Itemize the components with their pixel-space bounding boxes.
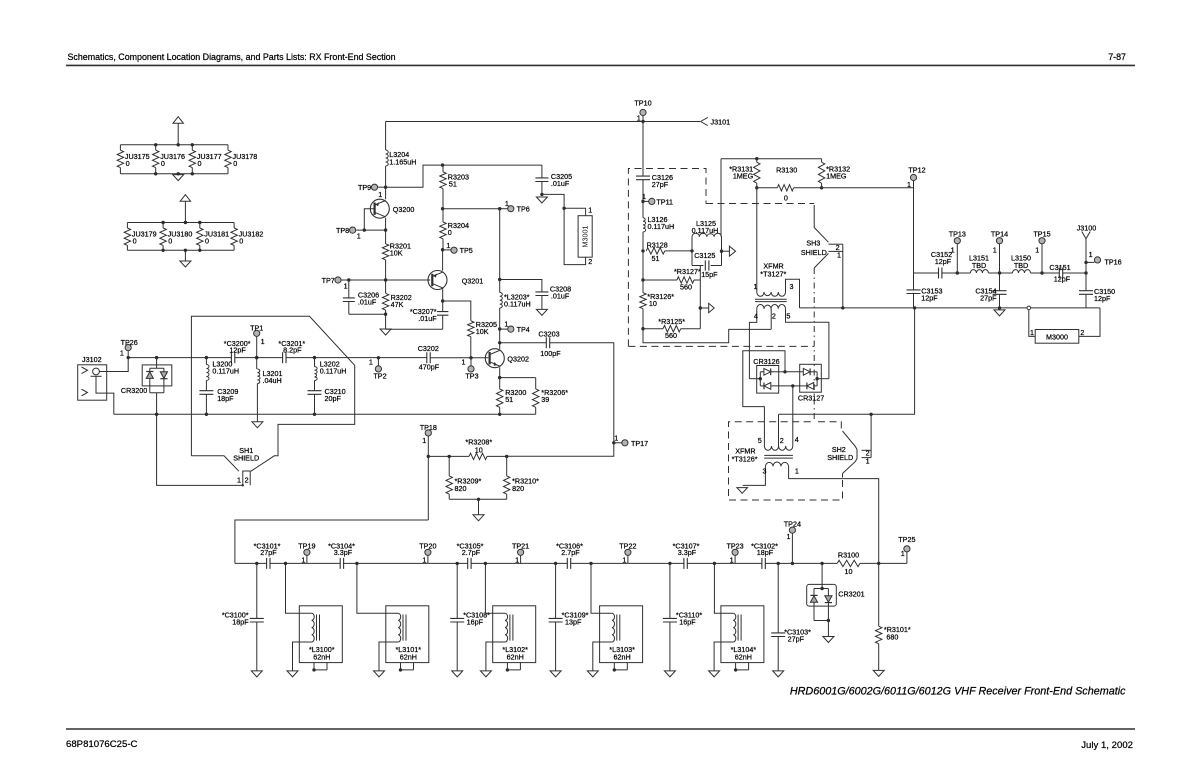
resistor R3209	[448, 456, 450, 476]
ground below R3101	[873, 670, 884, 676]
wire L3103 feed	[591, 563, 612, 613]
node C3208 branch	[498, 278, 501, 281]
wire chain segment2	[270, 562, 340, 564]
svg-text:0: 0	[161, 159, 165, 168]
node TP16 junction	[1084, 261, 1087, 264]
test point TP24	[791, 533, 793, 563]
ground below C3208	[536, 309, 547, 315]
node L3202 top	[313, 356, 316, 359]
svg-text:27pF: 27pF	[980, 294, 997, 303]
test point TP3	[469, 356, 472, 359]
svg-text:Q3200: Q3200	[393, 205, 415, 214]
wire R3128 to tank	[665, 250, 692, 252]
svg-text:1: 1	[993, 245, 997, 254]
CR3201 left diode (up)	[813, 589, 815, 596]
inductor L3102 box	[493, 606, 536, 663]
ground below C3109	[550, 671, 561, 677]
svg-text:TP1: TP1	[250, 324, 263, 333]
test point TP8	[350, 227, 356, 233]
wire C3208 branch	[500, 280, 542, 293]
inductor L3204	[386, 150, 389, 166]
inductor L3104 core	[738, 615, 741, 641]
test point TP26	[125, 345, 131, 351]
svg-text:SHIELD: SHIELD	[233, 453, 259, 462]
svg-text:1: 1	[642, 192, 646, 201]
module M3000 connection circle	[1027, 306, 1031, 310]
wire SH1 pin1 to ground rail	[157, 414, 243, 485]
T3127 primary winding	[757, 292, 786, 296]
T3126 pin2 lead	[778, 414, 780, 446]
svg-text:1: 1	[1089, 250, 1093, 259]
connector J3100	[1085, 239, 1087, 273]
shield SH3 boundary line	[814, 205, 828, 268]
svg-text:SHIELD: SHIELD	[827, 453, 853, 462]
wire Q3202 emitter	[499, 367, 501, 377]
node TP11 junction	[641, 200, 644, 203]
wire CR3127 to T3127 pin5 riser	[817, 378, 829, 380]
inductor L3104 box	[721, 606, 764, 663]
wire TP18 stem down	[427, 436, 429, 520]
node C3154 rail junction	[998, 306, 1001, 309]
node TP5 junction	[441, 248, 444, 251]
wire R3125 right vertical to arrow node	[699, 280, 701, 329]
svg-text:0: 0	[133, 237, 137, 246]
capacitor C3203 wire left	[500, 342, 547, 344]
svg-text:1: 1	[787, 532, 791, 541]
svg-text:4: 4	[754, 312, 758, 321]
inductor L3203	[499, 280, 501, 293]
svg-text:8.2pF: 8.2pF	[283, 346, 302, 355]
svg-text:0: 0	[205, 237, 209, 246]
svg-text:62nH: 62nH	[735, 653, 752, 662]
footer rule	[66, 728, 1135, 730]
svg-text:0: 0	[239, 237, 243, 246]
svg-text:27pF: 27pF	[788, 635, 805, 644]
ground below C3110	[664, 671, 675, 677]
arrow symbol 2	[700, 307, 708, 309]
node C3110 top	[668, 562, 671, 565]
CR3126 left common bar	[759, 372, 761, 386]
svg-text:J3102: J3102	[82, 355, 102, 364]
resistor JU3178	[227, 145, 229, 150]
ground below C3205	[536, 197, 547, 203]
wire L3101 ground lead	[379, 642, 398, 671]
shield SH1 pin box	[243, 471, 250, 485]
resistor R3132	[821, 159, 823, 163]
svg-text:51: 51	[652, 254, 660, 263]
node TP6 junction	[498, 207, 501, 210]
wire R3130 to TP12	[822, 187, 914, 189]
svg-text:C3202: C3202	[418, 344, 439, 353]
wire CR3126 left feed	[749, 378, 760, 380]
node R3128 junction	[641, 249, 644, 252]
node TP26 junction	[127, 356, 130, 359]
node R3203 bottom TP6 branch	[441, 207, 444, 210]
wire SH3 pins to rail	[842, 244, 844, 308]
svg-text:1: 1	[344, 282, 348, 291]
test point TP9	[378, 186, 386, 188]
node Q3202 emitter junction	[498, 376, 501, 379]
module M3001 box	[578, 216, 592, 258]
capacitor C3100	[256, 563, 258, 618]
CR3126 bottom diode	[760, 385, 764, 387]
header rule	[66, 64, 1135, 66]
svg-text:1: 1	[795, 466, 799, 475]
ground below C3103	[773, 671, 784, 677]
inductor L3102 core	[510, 615, 513, 641]
inductor L3151	[970, 270, 988, 273]
capacitor C3151	[1059, 268, 1062, 279]
SH3 pin1 stub	[828, 250, 842, 252]
svg-text:TBD: TBD	[1014, 261, 1028, 270]
dashed shield boundary step	[706, 203, 814, 205]
svg-text:51: 51	[449, 180, 457, 189]
svg-text:0: 0	[784, 194, 788, 203]
wire column bottom to T3127 pin2	[643, 329, 771, 343]
resistor R3131	[756, 159, 758, 163]
test point TP5	[443, 249, 451, 251]
svg-text:1: 1	[120, 348, 124, 357]
transistor Q3200	[370, 199, 389, 218]
svg-text:1: 1	[515, 555, 519, 564]
wire L3204 column upper	[385, 122, 387, 151]
svg-text:HRD6001G/6002G/6011G/6012G VHF: HRD6001G/6002G/6011G/6012G VHF Receiver …	[790, 686, 1126, 698]
svg-text:TP15: TP15	[1033, 229, 1050, 238]
resistor R3126	[642, 280, 644, 293]
svg-text:16pF: 16pF	[467, 618, 484, 627]
svg-text:27pF: 27pF	[652, 180, 669, 189]
test point TP11	[643, 200, 649, 202]
jumper bank2 bottom rail wire	[127, 249, 234, 251]
wire T3126 pin2 to output rail riser	[779, 308, 915, 414]
capacitor C3200	[231, 352, 234, 363]
module M3000 box	[1035, 330, 1079, 344]
svg-text:13pF: 13pF	[565, 618, 582, 627]
wire C3201 to C3202	[286, 357, 427, 359]
inductor L3100 core	[317, 615, 320, 641]
svg-text:CR3200: CR3200	[121, 386, 147, 395]
J3102 chevron pin upper	[82, 367, 88, 374]
resistor R3208	[469, 453, 487, 459]
svg-text:1: 1	[866, 456, 870, 465]
inductor L3103 core	[617, 615, 620, 641]
wire TP12 stem	[913, 181, 915, 188]
wire C3205 node to M3001	[542, 194, 564, 208]
ground below L3103	[587, 671, 598, 677]
svg-text:*T3126*: *T3126*	[732, 454, 758, 463]
wire C3203 to TP17 column	[507, 343, 614, 456]
wire chain segment5	[571, 562, 684, 564]
wire Q3200 base lead	[364, 209, 373, 230]
node C3109 top	[554, 562, 557, 565]
svg-text:M3001: M3001	[581, 226, 590, 248]
node R3131 bottom	[755, 186, 758, 189]
wire R3131 R3132 top rail	[721, 158, 822, 160]
svg-text:July 1, 2002: July 1, 2002	[1081, 740, 1133, 751]
inductor L3100 box	[299, 606, 342, 663]
svg-text:18pF: 18pF	[217, 394, 234, 403]
test point TP12	[910, 174, 916, 180]
svg-text:1: 1	[637, 113, 641, 122]
capacitor C3154 shunt	[999, 273, 1001, 291]
bank1 junction dots	[154, 143, 157, 146]
node L3101 feed	[355, 562, 358, 565]
node arrow2	[699, 306, 702, 309]
diode pack CR3127 box	[800, 364, 822, 392]
resistor JU3175	[119, 145, 121, 150]
ground below L3201	[252, 422, 263, 428]
svg-text:R3128: R3128	[647, 240, 668, 249]
CR3201 top bar	[814, 584, 828, 588]
svg-text:4: 4	[795, 435, 799, 444]
connector J3101	[701, 117, 708, 125]
node R3203 top	[441, 163, 444, 166]
resistor JU3181	[199, 223, 201, 229]
svg-text:62nH: 62nH	[614, 653, 631, 662]
wire chain segment8	[860, 562, 907, 564]
capacitor C3105	[468, 558, 471, 569]
svg-text:1: 1	[504, 320, 508, 329]
svg-text:7-87: 7-87	[1108, 52, 1126, 62]
dashed box top right segment	[818, 422, 841, 431]
capacitor C3210	[314, 381, 316, 391]
svg-text:27pF: 27pF	[260, 548, 277, 557]
T3126 pin1 lead	[789, 466, 879, 563]
node R3125 junction	[641, 327, 644, 330]
svg-text:TP12: TP12	[908, 165, 925, 174]
wire R3204 to Q3201 collector	[442, 250, 444, 271]
svg-text:TP7: TP7	[322, 276, 335, 285]
wire Q3200 emitter to TP8 rail	[385, 218, 387, 230]
svg-text:1: 1	[907, 180, 911, 189]
bank2 junction dots	[161, 221, 164, 224]
CR3200 left diode (up)	[149, 368, 151, 371]
svg-text:TP11: TP11	[656, 197, 673, 206]
node R3202 top junction	[384, 278, 387, 281]
wire L3100 ground lead	[293, 642, 312, 671]
node L3104 feed	[713, 562, 716, 565]
arrow symbol at tank output	[722, 250, 730, 252]
node TP1 junction	[255, 356, 258, 359]
test point TP16	[1086, 261, 1094, 263]
svg-text:R3100: R3100	[838, 550, 859, 559]
resistor JU3177	[191, 145, 193, 150]
svg-text:TBD: TBD	[972, 261, 986, 270]
CR3126 top diode	[760, 371, 764, 373]
svg-text:.01uF: .01uF	[551, 292, 570, 301]
ground below L3104	[709, 671, 720, 677]
inductor L3150	[1013, 270, 1031, 273]
node riser junction	[913, 306, 916, 309]
wire chain segment7	[765, 562, 837, 564]
dashed shield boundary box1	[628, 169, 706, 347]
svg-text:TP4: TP4	[517, 325, 530, 334]
capacitor C3205	[541, 165, 543, 178]
svg-text:0.117uH: 0.117uH	[320, 367, 347, 376]
connector J3102 box	[78, 365, 107, 400]
svg-text:12pF: 12pF	[921, 293, 938, 302]
svg-text:3.3pF: 3.3pF	[334, 548, 353, 557]
test point TP7	[335, 277, 341, 283]
node TP8 wire emitter junction	[384, 228, 387, 231]
svg-text:C3151: C3151	[1049, 263, 1070, 272]
wire C3200 to C3201	[235, 357, 283, 359]
svg-text:1: 1	[754, 282, 758, 291]
diode pair CR3201 box	[807, 584, 837, 606]
node C3205 ground junction	[540, 193, 543, 196]
L3102 shield staple	[507, 663, 520, 670]
svg-text:SHIELD: SHIELD	[801, 248, 827, 257]
svg-text:TP9: TP9	[358, 183, 371, 192]
wire L3151 to L3150	[988, 272, 1012, 274]
svg-text:2: 2	[245, 475, 249, 484]
wire CR3126 top to T3126 pin5 loop	[743, 351, 785, 446]
svg-text:1: 1	[1030, 328, 1034, 337]
svg-text:2: 2	[780, 436, 784, 445]
inductor L3104 coil	[733, 613, 736, 642]
wire R3208 to R3210 node	[487, 455, 507, 457]
svg-text:1: 1	[1035, 245, 1039, 254]
test point TP20	[427, 555, 429, 563]
node TP9	[384, 186, 387, 189]
resistor R3204	[442, 209, 444, 222]
svg-text:M3000: M3000	[1046, 332, 1068, 341]
node mid bottom	[791, 384, 794, 387]
wire L3100 feed	[286, 563, 312, 613]
inductor L3101 core	[403, 615, 406, 641]
svg-text:62nH: 62nH	[400, 653, 417, 662]
wire CR3201 stem	[821, 563, 823, 584]
node R3209 top	[448, 455, 451, 458]
svg-text:*R3125*: *R3125*	[658, 317, 685, 326]
capacitor C3153 shunt	[913, 273, 915, 290]
T3127 pin5 lead	[786, 309, 829, 379]
transistor Q3202	[485, 349, 504, 368]
wire CR3200 stem	[156, 358, 158, 365]
svg-text:Q3202: Q3202	[507, 355, 529, 364]
ground below R3209/R3210	[478, 499, 480, 515]
test point TP6	[500, 208, 508, 210]
svg-text:TP20: TP20	[419, 541, 436, 550]
jumper bank1 bottom rail wire	[120, 173, 228, 175]
resistor R3100	[837, 560, 860, 566]
wire L3203 to Q3202 collector node	[499, 329, 501, 349]
svg-text:1.165uH: 1.165uH	[389, 157, 416, 166]
shield SH2 brace	[843, 431, 858, 474]
wire chain segment3	[344, 562, 468, 564]
CR3201 right diode (down)	[827, 589, 829, 596]
node SH3 rail junction	[841, 306, 844, 309]
svg-text:51: 51	[505, 395, 513, 404]
svg-text:1: 1	[357, 232, 361, 241]
node Q3201 emitter junction	[441, 299, 444, 302]
svg-text:*T3127*: *T3127*	[760, 269, 786, 278]
SH3 pin2 stub	[828, 243, 842, 245]
T3126 bottom winding	[765, 462, 788, 466]
wire bottom chain segment1	[235, 562, 267, 564]
test point TP22	[627, 555, 629, 563]
svg-text:TP16: TP16	[1105, 257, 1122, 266]
svg-text:TP14: TP14	[991, 229, 1008, 238]
svg-text:1MEG: 1MEG	[826, 171, 847, 180]
svg-text:1: 1	[614, 433, 618, 442]
node TP14 junction	[998, 271, 1001, 274]
node C3103 top	[777, 562, 780, 565]
svg-text:0.117uH: 0.117uH	[504, 300, 531, 309]
J3102 chevron pin lower	[82, 389, 88, 396]
wire main path J3102 to C3200	[128, 357, 231, 359]
resistor JU3176	[155, 145, 157, 150]
svg-text:.01uF: .01uF	[418, 314, 437, 323]
svg-text:5: 5	[786, 312, 790, 321]
L3104 shield staple	[736, 663, 749, 670]
wire L3104 feed	[714, 563, 733, 613]
node R3130 right	[820, 186, 823, 189]
wire L3102 ground lead	[486, 642, 505, 671]
node C3206 branch	[347, 278, 350, 281]
ground rail junction dots	[155, 413, 158, 416]
wire M3001 pin2 loop	[564, 208, 586, 264]
L3103 shield staple	[614, 663, 627, 670]
SH2 pin2 stub	[862, 449, 872, 451]
node CR3127 right	[815, 377, 818, 380]
node top rail at TP10 column	[641, 120, 644, 123]
svg-text:.01uF: .01uF	[551, 179, 570, 188]
svg-text:0.117uH: 0.117uH	[212, 367, 239, 376]
svg-text:J3101: J3101	[711, 118, 731, 127]
test point TP15	[1041, 244, 1043, 273]
capacitor C3202	[427, 352, 430, 363]
svg-text:10K: 10K	[390, 249, 403, 258]
svg-text:1: 1	[951, 245, 955, 254]
node CR3201 top	[820, 562, 823, 565]
capacitor C3208	[535, 292, 548, 296]
wire chain segment4	[471, 562, 567, 564]
svg-text:1: 1	[422, 555, 426, 564]
test point TP18	[425, 430, 431, 436]
ground arrow at T3126 pin3	[737, 488, 748, 494]
svg-text:0: 0	[168, 237, 172, 246]
wire R3127 right to tank bottom	[699, 266, 701, 281]
svg-text:3.3pF: 3.3pF	[678, 548, 697, 557]
wire M3000 pin1	[1029, 310, 1035, 337]
capacitor C3108	[456, 563, 458, 618]
capacitor C3203	[546, 337, 549, 348]
svg-text:18pF: 18pF	[232, 618, 249, 627]
node TP18 rail junction	[427, 455, 430, 458]
inductor L3202	[314, 358, 316, 367]
test point TP17	[614, 442, 622, 444]
wire J3102 signal out	[99, 358, 128, 372]
svg-text:1: 1	[369, 358, 373, 367]
svg-text:R3130: R3130	[776, 165, 797, 174]
node M3001 pin1 junction	[562, 207, 565, 210]
inductor L3101 coil	[398, 613, 401, 642]
wire T3127 pin1 from R3131 node	[756, 188, 758, 292]
node R3127 junction	[641, 278, 644, 281]
svg-text:0.117uH: 0.117uH	[692, 226, 719, 235]
L3101 shield staple	[401, 663, 414, 670]
dashed shield boundary bottom	[628, 345, 814, 347]
inductor L3201	[256, 358, 258, 369]
resistor R3128	[646, 248, 665, 254]
node TP8 wire base junction	[363, 228, 366, 231]
ground below L3100	[287, 671, 298, 677]
supply arrow above bank2	[184, 201, 186, 222]
L3100 shield staple	[314, 663, 327, 670]
wire output chain left	[914, 272, 939, 274]
node SH2 junction	[869, 413, 872, 416]
